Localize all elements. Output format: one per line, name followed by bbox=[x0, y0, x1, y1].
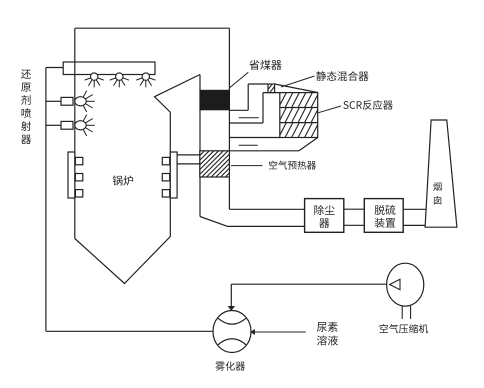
flue duct to dust collector bbox=[228, 209, 305, 226]
SCR reactor label SCR反应器 bbox=[318, 100, 393, 113]
boiler body (hopper, right wall, exit nose) bbox=[75, 75, 200, 284]
left burner column bbox=[68, 152, 83, 198]
air preheater label 空气预热器 bbox=[231, 161, 316, 170]
stack 烟囱 bbox=[425, 120, 457, 227]
air duct from preheater to boiler bbox=[177, 155, 200, 164]
atomizer label 雾化器 bbox=[215, 361, 245, 370]
manifold nozzle 2 bbox=[110, 73, 129, 87]
right burner column bbox=[162, 152, 177, 198]
SCR reactor body with catalyst layers bbox=[272, 93, 325, 138]
dust collector 除尘器 bbox=[305, 199, 344, 233]
air preheater (hatched box) bbox=[174, 151, 257, 177]
static mixer bbox=[261, 84, 280, 93]
boiler label 锅炉 bbox=[113, 176, 134, 186]
manifold nozzle 3 bbox=[136, 73, 155, 87]
manifold nozzle 1 bbox=[85, 73, 104, 87]
air line from compressor to atomizer bbox=[228, 284, 387, 311]
air compressor label 空气压缩机 bbox=[380, 324, 429, 333]
injection manifold bar bbox=[63, 62, 155, 75]
duct from desulfurizer to stack bbox=[403, 209, 426, 225]
static mixer label 静态混合器 bbox=[281, 71, 369, 87]
duct between dust collector and desulfurizer bbox=[344, 209, 365, 225]
urea solution label 尿素溶液 bbox=[317, 322, 338, 346]
side injector 1 bbox=[46, 91, 95, 112]
SCR outlet duct bbox=[229, 138, 317, 151]
boiler enclosure outline bbox=[75, 28, 230, 238]
urea solution feed arrow bbox=[250, 329, 306, 335]
air compressor bbox=[387, 263, 424, 319]
SCR inlet duct inner wall bbox=[229, 93, 279, 123]
flow mark in inlet duct bbox=[239, 117, 259, 119]
desulfurization device 脱硫装置 bbox=[364, 199, 403, 233]
reductant label 还原剂喷射器 (vertical) bbox=[21, 69, 31, 144]
stack label 烟囱 (vertical) bbox=[433, 182, 441, 204]
SCR reactor top face bbox=[275, 84, 318, 93]
flue channel left wall bbox=[200, 75, 228, 227]
economizer label 省煤器 bbox=[230, 60, 282, 88]
atomizer bbox=[213, 311, 251, 353]
flow mark in outlet duct bbox=[239, 144, 258, 146]
reductant supply pipe bbox=[46, 68, 213, 332]
side injector 2 bbox=[46, 115, 95, 136]
economizer (black box) bbox=[200, 90, 230, 111]
SCR inlet duct outer wall bbox=[229, 84, 268, 110]
